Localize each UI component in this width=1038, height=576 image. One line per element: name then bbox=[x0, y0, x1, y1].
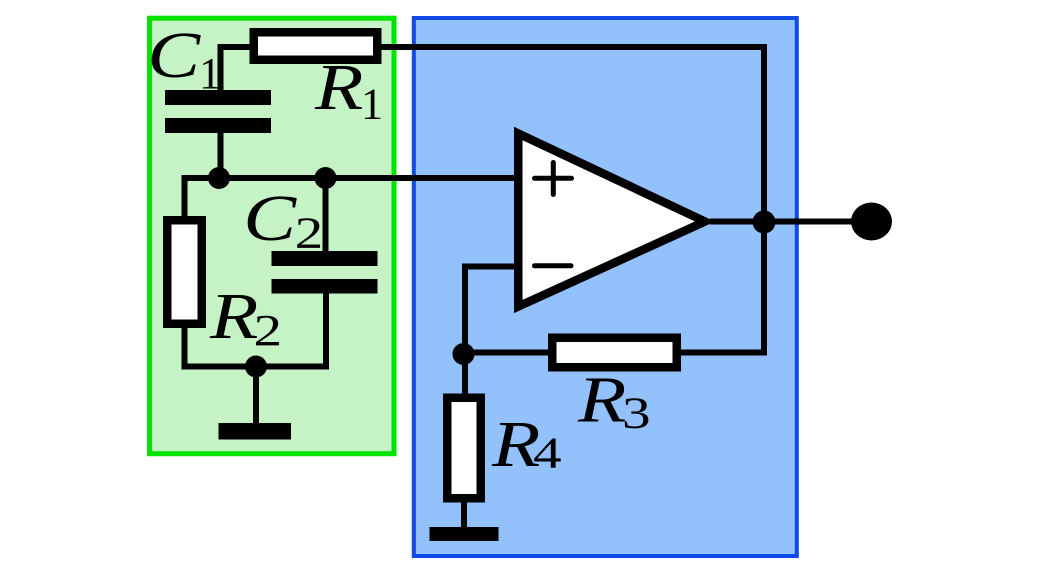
wire R1 right to feedback column down to R3 right bbox=[381, 47, 764, 353]
svg-text:2: 2 bbox=[254, 307, 283, 355]
svg-text:R: R bbox=[209, 279, 258, 352]
label C1 bbox=[147, 18, 201, 91]
label C2 bbox=[243, 181, 297, 254]
label R4 bbox=[491, 407, 540, 480]
node dot output bbox=[753, 211, 776, 234]
wire bottom node R2 to C2 bbox=[185, 292, 327, 367]
ground (green box) bbox=[219, 423, 292, 440]
wire C2 top stem bbox=[323, 178, 329, 252]
wire ground stem green bbox=[253, 367, 259, 425]
wire C1 top to R1 left bbox=[221, 47, 251, 92]
node dot C1/R2 bbox=[208, 167, 230, 189]
wire node to op-amp + input bbox=[185, 175, 517, 181]
node dot C2 top bbox=[315, 167, 337, 189]
svg-text:1: 1 bbox=[361, 80, 383, 129]
ground (blue box) bbox=[430, 527, 499, 541]
svg-text:C: C bbox=[243, 181, 297, 254]
label R1 bbox=[314, 50, 363, 123]
wire C1 bottom stem bbox=[218, 131, 224, 181]
resistor R2 bbox=[167, 220, 202, 324]
label R3 bbox=[577, 363, 626, 436]
svg-text:4: 4 bbox=[533, 430, 562, 478]
wire R4 bottom to ground bbox=[461, 501, 467, 528]
wire R2 top stem bbox=[182, 175, 188, 217]
node dot R4/R3 bbox=[453, 343, 475, 365]
svg-text:R: R bbox=[577, 363, 626, 436]
capacitor C1 bbox=[165, 90, 271, 105]
capacitor C2 bbox=[272, 251, 378, 266]
svg-text:1: 1 bbox=[199, 49, 221, 98]
wire R4 top stem bbox=[462, 354, 468, 397]
resistor R4 bbox=[447, 398, 481, 499]
resistor R3 bbox=[552, 338, 677, 368]
op-amp U1 bbox=[518, 134, 705, 307]
output terminal bbox=[851, 203, 892, 241]
green box (frequency-selective network) bbox=[150, 18, 395, 454]
op-amp + pin mark bbox=[535, 163, 572, 195]
blue box (amplifier) bbox=[414, 18, 797, 556]
wire op-amp - input bbox=[465, 267, 516, 358]
label R2 bbox=[209, 279, 258, 352]
svg-text:2: 2 bbox=[295, 210, 324, 258]
wire node to R3 left bbox=[464, 350, 551, 356]
svg-text:R: R bbox=[314, 50, 363, 123]
op-amp - pin mark bbox=[535, 263, 572, 268]
svg-text:3: 3 bbox=[622, 390, 651, 438]
resistor R1 bbox=[254, 32, 378, 60]
svg-text:C: C bbox=[147, 18, 201, 91]
wire op-amp output bbox=[710, 219, 856, 225]
node dot bottom green bbox=[245, 356, 267, 378]
